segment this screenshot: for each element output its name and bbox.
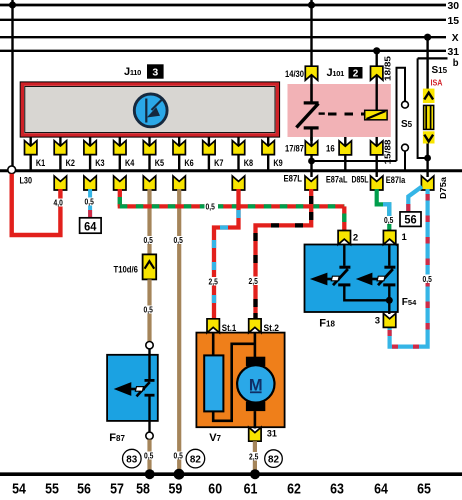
svg-text:59: 59	[169, 482, 183, 498]
svg-text:18/85: 18/85	[383, 56, 393, 81]
wire bus 15	[0, 19, 446, 21]
svg-text:58: 58	[136, 482, 150, 498]
designation box 64	[80, 218, 102, 234]
svg-text:K9: K9	[273, 158, 282, 168]
S15 bracket b	[418, 58, 428, 158]
svg-text:16: 16	[326, 144, 335, 154]
svg-text:83: 83	[126, 454, 137, 465]
wire net 17/87 horizontal	[312, 160, 397, 162]
connector E87la arrow	[421, 176, 433, 190]
wire K5 brown lower	[147, 279, 151, 341]
wire L30 red loop to K2	[12, 174, 61, 235]
svg-text:17/87: 17/87	[285, 144, 304, 154]
svg-text:L30: L30	[20, 176, 33, 187]
svg-text:D85L: D85L	[352, 175, 369, 185]
label box 3	[147, 64, 164, 78]
wire bus 30	[0, 4, 446, 7]
wire 15/88 down to D85L	[376, 137, 378, 177]
connector K1 arrow	[25, 141, 37, 155]
svg-text:D75a: D75a	[438, 177, 448, 199]
svg-text:K3: K3	[95, 158, 104, 168]
J101 coil element	[365, 84, 387, 120]
wire K4 green/red	[118, 189, 345, 233]
wire 17/87 down to E87L	[310, 137, 312, 177]
connector K8 lower arrow	[232, 176, 244, 190]
svg-text:E87aL: E87aL	[326, 175, 348, 185]
label 2,5 St2	[248, 277, 262, 287]
svg-text:K8: K8	[244, 158, 253, 168]
wire D85L green/blue to F18 pin1	[377, 189, 392, 233]
connector 14/30 arrow	[305, 66, 317, 80]
svg-text:57: 57	[110, 482, 124, 498]
V7 resistor branch	[204, 333, 255, 421]
connector E87L arrow	[305, 176, 317, 190]
J110 wiper symbol circle	[134, 94, 167, 127]
wire bus X	[0, 36, 446, 38]
svg-text:K4: K4	[125, 158, 134, 168]
svg-text:E87L: E87L	[284, 174, 303, 184]
fuse S15	[423, 34, 435, 177]
svg-text:14/30: 14/30	[285, 69, 304, 79]
label 0,5 K5	[143, 236, 156, 245]
wire V7 ground	[253, 441, 257, 472]
connector K4 arrow	[114, 141, 126, 155]
switch unit F18	[305, 245, 398, 313]
connector L30	[8, 166, 16, 174]
wire 16	[344, 137, 346, 170]
wire D75a blue/red down and U to F18 pin3	[390, 189, 428, 347]
wire E87L red/black to St.2	[256, 189, 312, 325]
wire F87 ground	[147, 440, 151, 473]
connector K5 lower arrow	[143, 176, 155, 190]
svg-text:82: 82	[190, 454, 201, 465]
label 0,5 K4	[205, 202, 219, 212]
connector T10d/6	[143, 254, 157, 279]
label 2,5 St1	[208, 277, 222, 287]
svg-text:0,5: 0,5	[144, 236, 154, 245]
svg-text:St.2: St.2	[264, 323, 280, 333]
label 0,5 K6 bottom	[173, 452, 187, 461]
connector D85L arrow	[371, 176, 383, 190]
label 0,5 K3	[84, 198, 97, 207]
svg-text:J101: J101	[327, 67, 345, 79]
wire J101 18/85 to bus 31	[376, 51, 378, 84]
svg-text:X: X	[452, 32, 459, 44]
fuse S5	[397, 68, 409, 170]
connector F18 pin3 arrow	[383, 313, 395, 327]
label 0,5 pin1	[383, 216, 396, 225]
connector K2 lower arrow	[54, 176, 66, 190]
svg-text:30: 30	[448, 0, 460, 12]
V7 motor M	[237, 333, 274, 429]
svg-text:T10d/6: T10d/6	[114, 265, 138, 276]
svg-text:b: b	[453, 57, 459, 69]
svg-text:31: 31	[267, 429, 278, 440]
connector 17/87 arrow	[305, 141, 317, 155]
svg-text:S15: S15	[432, 65, 448, 76]
node dot 14/30 on 30	[308, 1, 315, 8]
wire bus 31	[0, 50, 446, 52]
label 0,5 K6	[173, 236, 186, 245]
connector K6 lower arrow	[173, 176, 185, 190]
svg-text:54: 54	[12, 482, 26, 498]
J101 switch contact	[296, 84, 324, 141]
svg-text:E87la: E87la	[386, 175, 406, 185]
wire K1	[30, 137, 32, 170]
wiper motor V7	[196, 333, 284, 428]
connector F87 bottom circle	[146, 432, 153, 439]
wire K5 brown upper	[147, 189, 151, 254]
ground rail	[0, 472, 462, 476]
svg-text:0,5: 0,5	[423, 275, 433, 284]
svg-text:0,5: 0,5	[144, 452, 154, 461]
svg-text:0,5: 0,5	[206, 203, 216, 212]
connector 15/88 arrow	[371, 141, 383, 155]
connector K3 arrow	[84, 141, 96, 155]
svg-text:0,5: 0,5	[85, 198, 95, 207]
svg-text:ISA: ISA	[431, 79, 443, 88]
wire K9	[267, 137, 269, 170]
svg-text:15/88: 15/88	[383, 139, 393, 164]
svg-text:64: 64	[84, 222, 97, 234]
svg-text:63: 63	[330, 482, 344, 498]
grid numbers	[12, 482, 431, 498]
connector K5 arrow	[143, 141, 155, 155]
svg-text:2,5: 2,5	[249, 277, 259, 286]
connector F18 pin2 arrow	[338, 231, 350, 245]
svg-text:65: 65	[417, 482, 431, 498]
svg-text:V7: V7	[209, 432, 221, 444]
svg-text:3: 3	[152, 67, 158, 79]
connector 16 arrow	[339, 141, 351, 155]
connector St.2 arrow	[249, 319, 261, 333]
svg-text:62: 62	[287, 482, 301, 498]
svg-text:2: 2	[353, 233, 358, 244]
ref circle 82 right	[265, 450, 283, 468]
svg-text:0,5: 0,5	[174, 452, 184, 461]
svg-text:S5: S5	[401, 119, 413, 130]
svg-text:4,0: 4,0	[54, 199, 64, 208]
relay J110	[20, 82, 279, 137]
svg-text:56: 56	[77, 482, 91, 498]
svg-text:15: 15	[448, 15, 460, 27]
J101 mechanical link dashes	[328, 113, 364, 116]
svg-text:0,5: 0,5	[174, 236, 184, 245]
F87 internal switch	[114, 349, 155, 432]
svg-text:1: 1	[402, 232, 408, 243]
connector 18/85 arrow	[371, 66, 383, 80]
svg-text:82: 82	[268, 454, 279, 465]
svg-text:K7: K7	[214, 158, 223, 168]
label 4,0	[53, 199, 67, 208]
connector V7 31 arrow	[249, 427, 261, 441]
svg-text:3: 3	[375, 316, 380, 327]
svg-text:61: 61	[244, 482, 258, 498]
svg-text:K5: K5	[155, 158, 164, 168]
wire K8 red/blue to St.1	[214, 206, 239, 325]
svg-text:60: 60	[208, 482, 222, 498]
wire K2	[59, 137, 61, 170]
label 2,5 V7	[248, 452, 262, 462]
node dot 17/87 junction	[308, 158, 315, 165]
connector K8 arrow	[232, 141, 244, 155]
svg-text:K2: K2	[66, 158, 75, 168]
svg-text:0,5: 0,5	[384, 216, 394, 225]
svg-text:K1: K1	[36, 158, 45, 168]
svg-text:56: 56	[404, 215, 416, 227]
connector K9 arrow	[262, 141, 274, 155]
svg-text:F54: F54	[402, 297, 417, 308]
svg-text:55: 55	[45, 482, 59, 498]
wire K6 brown	[177, 189, 181, 472]
label 0,5 K5b	[143, 306, 156, 315]
designation box 56	[400, 212, 421, 227]
wire J101 14/30 to bus 30	[310, 0, 312, 84]
node ground dot 59	[174, 469, 185, 480]
wire K8	[237, 137, 239, 170]
connector K3 lower arrow	[84, 176, 96, 190]
node dot on 30	[9, 1, 16, 8]
wire K3	[89, 137, 91, 170]
svg-text:31: 31	[448, 46, 460, 58]
svg-text:2,5: 2,5	[209, 278, 219, 287]
ref circle 82 left	[186, 449, 205, 468]
wire K7	[208, 137, 210, 170]
svg-text:2,5: 2,5	[249, 453, 259, 462]
node ground dot 61	[250, 469, 260, 479]
connector K6 arrow	[173, 141, 185, 155]
connector K7 arrow	[203, 141, 215, 155]
node dot 18/85 on 31	[373, 47, 380, 54]
wire K4	[119, 137, 121, 170]
wire K3 blue to 64	[88, 189, 92, 219]
svg-text:K6: K6	[184, 158, 193, 168]
switch F87	[107, 355, 158, 421]
label 0,5 D75a	[422, 275, 435, 285]
connector K4 lower arrow	[114, 176, 126, 190]
wire K6	[178, 137, 180, 170]
node dot S15	[424, 155, 431, 162]
connector K2 arrow	[54, 141, 66, 155]
wire bus b	[418, 57, 448, 59]
svg-text:F87: F87	[109, 432, 125, 444]
wire E87la to 56	[408, 187, 422, 213]
wire left bus vertical	[11, 0, 13, 167]
wire K8 red	[236, 189, 240, 208]
label box 2	[349, 67, 363, 79]
connector St.1 arrow	[207, 319, 219, 333]
F18 right switch	[356, 245, 396, 286]
ref circle 83	[123, 449, 142, 468]
relay J101	[288, 84, 391, 137]
svg-text:64: 64	[374, 482, 388, 498]
svg-text:St.1: St.1	[222, 323, 237, 333]
terminal strip rail	[0, 169, 462, 172]
connector F87 top circle	[146, 342, 153, 349]
svg-text:F18: F18	[319, 318, 335, 330]
label 0,5 F87	[143, 452, 157, 461]
F18 left switch	[310, 245, 351, 286]
wire K5	[148, 137, 150, 170]
svg-text:0,5: 0,5	[144, 306, 154, 315]
node ground dot 58	[145, 469, 155, 479]
svg-text:J110: J110	[124, 66, 141, 78]
svg-text:2: 2	[353, 69, 359, 80]
F18 internal bus to pin3	[344, 285, 393, 314]
connector F18 pin1 arrow	[383, 231, 395, 245]
